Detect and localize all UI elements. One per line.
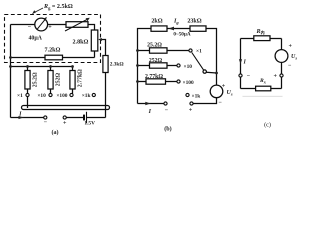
junction dot b1 (136, 49, 139, 52)
wire pivot to rail (206, 71, 216, 74)
svg-text:40μA: 40μA (28, 35, 42, 41)
resistor 2.3k ohm (103, 56, 108, 73)
wire meter to rheostat (48, 24, 66, 26)
Rg leader line (34, 8, 43, 13)
svg-text:25.2Ω: 25.2Ω (147, 42, 162, 48)
svg-text:−: − (219, 100, 223, 106)
svg-text:R内: R内 (256, 29, 265, 35)
svg-text:I: I (148, 109, 152, 115)
resistor 252 ohm (b) (150, 63, 168, 68)
wire to right rail (b) (206, 29, 217, 86)
dashed meter-head box (5, 15, 101, 63)
wiper arrowhead (98, 38, 102, 41)
wire 2.8k bottom (94, 51, 96, 58)
resistor 23k ohm (190, 26, 206, 31)
resistor 25.2 ohm (25, 71, 30, 90)
resistor 2.77k ohm (b) (146, 79, 166, 84)
terminal minus (c) (239, 74, 242, 77)
wire with Ig arrow (167, 28, 190, 30)
svg-text:0~50μA: 0~50μA (173, 32, 190, 38)
wire top (11, 24, 35, 26)
resistor 25.2 ohm (b) (150, 48, 168, 53)
junction dot b3 (136, 80, 139, 83)
svg-text:+: + (189, 108, 193, 114)
resistor 7.2k ohm (45, 55, 63, 60)
wire minus to corner (138, 103, 164, 105)
junction dot left rail range (9, 65, 12, 68)
svg-text:252Ω: 252Ω (56, 73, 62, 87)
svg-text:−: − (165, 108, 169, 114)
junction dot left 7.2k (9, 56, 12, 59)
svg-text:I: I (243, 59, 247, 65)
svg-text:Us: Us (291, 54, 297, 60)
rheostat arrowhead (86, 18, 90, 22)
wire plus to battery (66, 117, 83, 119)
svg-text:×100: ×100 (56, 93, 67, 99)
wire bottom left (11, 117, 44, 119)
terminal x1k (92, 93, 95, 96)
terminal plus (b) (190, 102, 193, 105)
svg-text:−: − (247, 74, 251, 80)
svg-text:Rg = 2.5kΩ: Rg = 2.5kΩ (43, 4, 73, 10)
terminal plus (c) (280, 74, 283, 77)
switch wiper (b) (192, 53, 204, 71)
wire stub r3 (72, 67, 74, 94)
wire rheostat to 2.8k (88, 25, 95, 31)
svg-text:×10: ×10 (37, 93, 46, 99)
Ig arrowhead (169, 27, 175, 31)
branch wire x1 (138, 50, 190, 52)
resistor 2.77k ohm (70, 71, 75, 90)
junction dot r3 (71, 65, 74, 68)
wire left rail (10, 25, 12, 118)
terminal minus (a) (44, 116, 47, 119)
svg-text:25.2Ω: 25.2Ω (33, 72, 39, 87)
resistor 2k ohm (151, 26, 167, 31)
terminal minus (b) (164, 102, 167, 105)
wire battery to right rail (87, 117, 106, 119)
svg-text:(b): (b) (164, 126, 171, 133)
svg-text:2kΩ: 2kΩ (151, 18, 162, 24)
svg-text:I: I (18, 112, 22, 118)
rheostat box (66, 22, 88, 28)
wire left rail (c) (240, 39, 242, 89)
wiper pivot (203, 70, 206, 73)
svg-text:×1: ×1 (196, 48, 202, 54)
svg-text:(c): (c) (264, 121, 271, 128)
svg-text:(a): (a) (51, 129, 58, 136)
source Us circle (c) (275, 50, 288, 63)
svg-text:2.3kΩ: 2.3kΩ (110, 62, 124, 68)
svg-text:×1k: ×1k (192, 93, 201, 99)
wire top (c) (241, 38, 282, 40)
contact x100 (177, 80, 180, 83)
svg-text:2.77kΩ: 2.77kΩ (78, 69, 84, 87)
branch wire x10 (138, 65, 178, 67)
svg-text:Us: Us (227, 90, 233, 96)
branch wire x100 (138, 81, 178, 83)
svg-text:×100: ×100 (183, 80, 194, 86)
svg-text:×1k: ×1k (82, 93, 91, 99)
terminal x1 (26, 93, 29, 96)
svg-text:1.5V: 1.5V (84, 120, 95, 126)
galvanometer G 40uA (35, 18, 48, 31)
resistor 252 ohm (48, 71, 53, 90)
junction dot rail pivot (215, 72, 218, 75)
wiper wire of 2.8k pot (100, 40, 106, 56)
rheostat arrow (65, 19, 88, 31)
svg-text:7.2kΩ: 7.2kΩ (45, 48, 61, 54)
wire source to plus terminal (193, 98, 217, 104)
svg-text:+: + (63, 121, 67, 127)
wire left rail (b) (138, 29, 152, 104)
resistor 2.8k ohm (pot) (91, 30, 98, 51)
pointer arrowhead (44, 17, 47, 20)
galvanometer pointer (37, 19, 46, 30)
terminal x100 (70, 93, 73, 96)
wire stub r2 (50, 67, 52, 94)
current I arrowhead (c) (239, 59, 242, 64)
svg-text:Ig: Ig (173, 19, 179, 25)
wire stub r1 (27, 67, 29, 94)
junction dot r2 (49, 65, 52, 68)
contact x1k (186, 93, 189, 96)
svg-text:23kΩ: 23kΩ (187, 18, 201, 24)
svg-text:+: + (222, 84, 226, 90)
wire right rail top (c) (281, 39, 283, 50)
faint scan line (243, 95, 283, 97)
svg-text:+: + (48, 25, 52, 31)
junction dot r1 (26, 65, 29, 68)
svg-text:×10: ×10 (184, 64, 193, 70)
wire range rail (11, 66, 73, 68)
svg-text:252Ω: 252Ω (149, 58, 163, 64)
current I arrowhead (b) (145, 102, 150, 105)
wire 7.2k row (11, 57, 95, 59)
source Us circle (b) (210, 85, 223, 98)
svg-text:+: + (274, 74, 278, 80)
svg-text:2.77kΩ: 2.77kΩ (145, 74, 163, 80)
switch bar (22, 106, 110, 110)
terminal x10 (49, 93, 52, 96)
wire right rail bottom (c) (281, 62, 283, 88)
resistor R_nei (254, 36, 270, 41)
wire right rail down (105, 73, 107, 118)
svg-text:−: − (44, 120, 48, 126)
wire bottom (c) (241, 88, 282, 90)
svg-text:−: − (288, 63, 292, 69)
current I arrowhead (a) (19, 116, 24, 119)
svg-text:−: − (28, 25, 32, 31)
svg-text:×1: ×1 (17, 93, 23, 99)
svg-text:Rx: Rx (259, 78, 267, 84)
contact x1 (189, 49, 192, 52)
wire x1 to switch bar (27, 97, 29, 109)
svg-text:2.8kΩ: 2.8kΩ (73, 40, 89, 46)
resistor Rx (256, 86, 271, 91)
Rg leader arrowhead (32, 10, 36, 14)
contact x10 (177, 64, 180, 67)
battery 1.5V plates (83, 115, 85, 121)
svg-text:+: + (289, 44, 293, 50)
terminal plus (a) (63, 116, 66, 119)
junction dot b2 (136, 64, 139, 67)
